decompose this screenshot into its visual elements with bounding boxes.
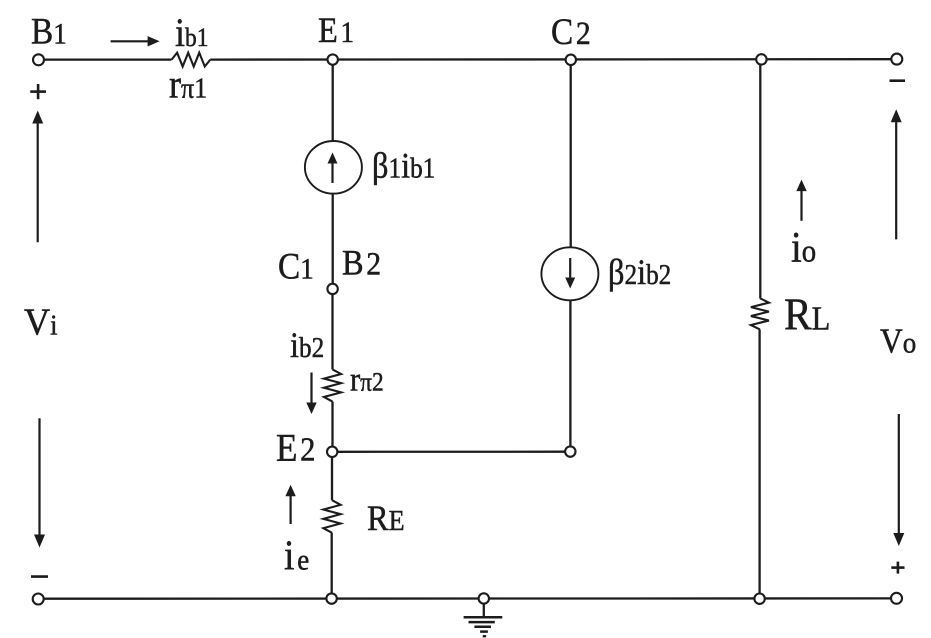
svg-text:E2: E2 [276,427,315,470]
wire E1 down to current source U1 [332,60,334,141]
arrow Vi down (left bottom) [38,418,40,536]
svg-text:C2: C2 [551,11,591,52]
wire ground stub [483,604,485,617]
arrow Vo up (right top) [895,120,897,239]
node E2 [327,447,337,457]
label minus (input bottom) [31,575,48,578]
wire C2 down to current source U2 [570,60,572,248]
svg-text:B2: B2 [342,243,381,283]
node ground junction [479,593,489,603]
arrow io up [800,189,802,221]
wire current source U2 down to node at E2 rail [569,300,571,446]
wire resistor r_pi2 to node E2 [331,402,333,447]
node B1 terminal [33,54,44,65]
label minus (output top) [890,79,906,82]
arrow ie up [290,494,292,524]
node E1 [328,54,338,64]
arrow ib1 direction (top left) [111,40,150,42]
svg-text:ib2: ib2 [290,325,324,365]
wire node C1/B2 down to resistor r_pi2 [331,294,333,369]
wire top rail B1 to resistor r_pi1 [44,58,172,60]
resistor r_pi1 [172,53,211,67]
wire RL to bottom rail [758,330,760,599]
label plus (input top) [30,90,46,93]
node right-rail bottom junction [754,594,764,604]
resistor RE [323,500,340,533]
svg-text:β1ib1: β1ib1 [372,146,435,186]
node output bottom terminal [891,593,902,604]
wire resistor RE to bottom rail [331,533,333,594]
wire top rail r_pi1 through E1 and C2 to output terminal [210,58,891,61]
node U2 bottom junction [565,446,575,456]
svg-text:E1: E1 [318,10,354,50]
wire current source U1 to node C1/B2 [332,194,334,284]
svg-text:β2ib2: β2ib2 [608,252,671,292]
wire E2 horizontal to U2 bottom node [338,451,566,453]
current source U2 beta2*ib2 [541,247,598,300]
ground [464,616,503,619]
wire right rail top junction down to RL [759,59,761,298]
arrow Vo down (right bottom) [898,414,900,535]
arrow ib2 down [310,373,312,405]
node C2 [566,55,576,65]
resistor r_pi2 [324,369,341,401]
label plus (output bottom) [891,566,904,569]
node RE bottom junction [326,593,336,603]
svg-text:RE: RE [367,498,405,538]
node output top terminal [891,54,902,65]
node right-rail top junction [756,54,766,64]
node C1/B2 [327,284,337,294]
svg-text:Vo: Vo [880,322,916,361]
node input bottom terminal [33,594,44,605]
wire bottom rail [44,597,892,600]
wire node E2 down to resistor RE [331,457,333,500]
current source U1 beta1*ib1 [305,141,362,194]
resistor RL [751,298,769,329]
arrow Vi up (left top) [37,122,39,243]
